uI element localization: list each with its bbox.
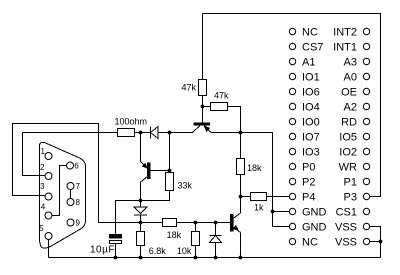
svg-text:5: 5 <box>39 224 44 233</box>
svg-text:GND: GND <box>302 207 327 219</box>
IC U1 left pin circles <box>289 28 295 244</box>
transistor Q1 PNP <box>148 163 151 179</box>
junction node A Q1 collector / C1 / D2 <box>139 199 143 203</box>
svg-text:IO3: IO3 <box>302 147 320 159</box>
diode D2 <box>140 201 142 208</box>
svg-text:IO0: IO0 <box>302 117 320 129</box>
resistor R9 1k <box>251 193 267 201</box>
svg-text:INT1: INT1 <box>333 42 357 54</box>
junction Q2 emitter on ground rail <box>239 256 243 260</box>
resistor R3 47k horizontal <box>211 103 228 111</box>
resistor R1 100ohm <box>118 129 135 137</box>
capacitor C1 10uF top plate <box>110 235 122 239</box>
svg-text:P0: P0 <box>302 162 315 174</box>
svg-text:100ohm: 100ohm <box>115 117 148 127</box>
capacitor C1 bottom plate <box>110 241 122 244</box>
svg-text:47k: 47k <box>214 91 229 101</box>
svg-text:NC: NC <box>302 27 318 39</box>
wire pin5 to ground rail <box>48 240 50 258</box>
wire 1k to pin P4 <box>267 196 290 198</box>
svg-text:IO4: IO4 <box>302 102 320 114</box>
wire pin4 to pin6 <box>52 166 67 216</box>
IC U1 right pin circles <box>363 28 369 244</box>
svg-text:P2: P2 <box>302 177 315 189</box>
wire Q3 emitter to GND column <box>211 133 273 227</box>
diode D3 <box>215 223 217 236</box>
wire pin7 to pin8 <box>70 190 72 199</box>
svg-text:RD: RD <box>341 117 357 129</box>
junction GND pin wire <box>271 210 275 214</box>
mid rail right segment to Q2 base <box>177 222 231 224</box>
junction 10k top on mid rail <box>194 221 198 225</box>
wire Q1 base to 33k node <box>150 170 170 172</box>
resistor R6 18k horizontal <box>163 219 177 227</box>
diode D1 <box>150 127 152 139</box>
resistor R7 10k <box>192 232 200 246</box>
svg-text:GND: GND <box>302 222 327 234</box>
svg-text:CS7: CS7 <box>302 42 323 54</box>
node A horizontal to capacitor <box>116 201 141 235</box>
svg-text:33k: 33k <box>178 181 193 191</box>
wire VSS pins to ground rail <box>370 227 381 258</box>
resistor R5 6.8k <box>137 232 145 246</box>
wire node D1a down to Q1 emitter <box>140 133 142 162</box>
svg-text:10k: 10k <box>177 246 192 256</box>
svg-text:OE: OE <box>341 87 357 99</box>
junction D2 cathode / 6.8k on mid rail <box>139 221 143 225</box>
svg-text:VSS: VSS <box>335 222 357 234</box>
svg-text:7: 7 <box>76 182 81 191</box>
pin 9 <box>67 219 74 226</box>
svg-text:18k: 18k <box>247 163 262 173</box>
svg-text:IO1: IO1 <box>302 72 320 84</box>
wire pin2 loop to R1 <box>23 133 118 176</box>
junction node D1 cathode / 33k top <box>168 131 172 135</box>
svg-text:8: 8 <box>76 198 81 207</box>
svg-text:1k: 1k <box>254 203 264 213</box>
svg-text:4: 4 <box>41 203 46 212</box>
mid rail left segment <box>99 222 163 224</box>
wire D1 to Q3 collector <box>158 132 193 134</box>
transistor Q3 PNP <box>194 123 210 125</box>
resistor R2 47k vertical <box>199 80 207 96</box>
svg-text:IO2: IO2 <box>339 147 357 159</box>
ground rail <box>49 257 381 259</box>
svg-text:CS1: CS1 <box>336 207 357 219</box>
svg-text:10µF: 10µF <box>90 245 115 256</box>
svg-text:9: 9 <box>76 219 81 228</box>
svg-text:18k: 18k <box>167 230 182 240</box>
IC U1 right pin labels <box>333 27 357 249</box>
junction 10k on ground rail <box>194 256 198 260</box>
junction C1 on ground rail <box>114 256 118 260</box>
svg-text:IO5: IO5 <box>339 132 357 144</box>
svg-text:P3: P3 <box>344 192 357 204</box>
junction 6.8k on ground rail <box>139 256 143 260</box>
resistor R8 18k vertical <box>237 159 245 175</box>
svg-text:A0: A0 <box>344 72 357 84</box>
junction node Q3 base / 47k <box>201 105 205 109</box>
svg-text:A3: A3 <box>344 57 357 69</box>
svg-text:2: 2 <box>40 163 45 172</box>
wire GND pins <box>273 211 290 213</box>
pin 6 <box>67 162 74 169</box>
svg-text:IO6: IO6 <box>302 87 320 99</box>
junction node Q1 base / 33k <box>168 169 172 173</box>
svg-text:WR: WR <box>339 162 357 174</box>
junction D3 top on mid rail <box>214 221 218 225</box>
connector J1 DB9 outline <box>40 142 86 248</box>
wire node D1k down to Q1 base node <box>169 133 171 171</box>
wire R1 to D1 <box>135 132 151 134</box>
svg-text:1: 1 <box>41 147 46 156</box>
svg-text:INT2: INT2 <box>333 27 357 39</box>
svg-text:A1: A1 <box>302 57 315 69</box>
svg-text:47k: 47k <box>181 83 196 93</box>
junction VSS pin wire <box>379 240 383 244</box>
pin 4 <box>45 212 52 219</box>
svg-text:A2: A2 <box>344 102 357 114</box>
svg-text:IO7: IO7 <box>302 132 320 144</box>
IC U1 left pin labels <box>302 27 327 249</box>
wire top rail to P3 <box>203 14 381 197</box>
svg-text:VSS: VSS <box>335 237 357 249</box>
pin 2 <box>45 173 52 180</box>
junction node 47k / Q3 emitter wire <box>239 131 243 135</box>
wire C1 to ground rail <box>115 244 117 258</box>
wire pin3 loop to mid rail <box>13 124 99 223</box>
pin 5 <box>45 233 52 240</box>
resistor R4 33k <box>166 173 174 191</box>
junction node D1 anode / Q1 emitter <box>139 131 143 135</box>
junction 18k / 1k / Q2 collector <box>239 195 243 199</box>
svg-text:6.8k: 6.8k <box>149 246 167 256</box>
junction D3 on ground rail <box>214 256 218 260</box>
transistor Q2 NPN <box>231 215 234 232</box>
svg-text:6: 6 <box>74 162 79 171</box>
pin 1 <box>45 153 52 160</box>
svg-text:3: 3 <box>40 182 45 191</box>
pin 7 <box>67 183 74 190</box>
svg-text:NC: NC <box>302 237 318 249</box>
svg-text:P1: P1 <box>344 177 357 189</box>
pin 8 <box>67 199 74 206</box>
svg-text:P4: P4 <box>302 192 315 204</box>
pin 3 <box>45 193 52 200</box>
